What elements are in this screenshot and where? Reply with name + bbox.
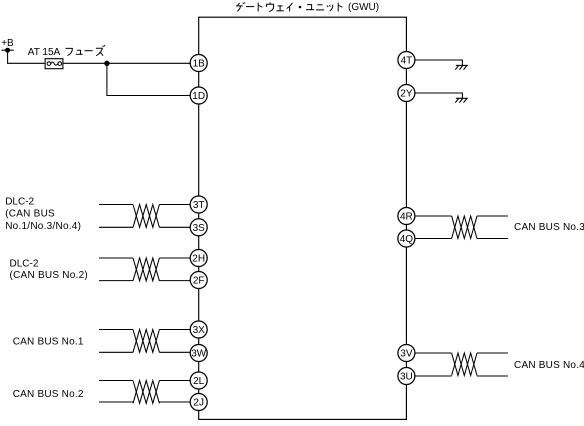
svg-text:3S: 3S <box>193 223 206 234</box>
svg-text:CAN BUS No.4: CAN BUS No.4 <box>514 360 584 371</box>
svg-text:(CAN BUS No.2): (CAN BUS No.2) <box>10 270 89 281</box>
pin 2H <box>190 250 207 267</box>
wire pin 4T to ground <box>415 60 462 65</box>
svg-text:2L: 2L <box>193 376 205 387</box>
svg-text:+B: +B <box>1 38 14 49</box>
svg-text:3X: 3X <box>193 325 206 336</box>
svg-text:CAN BUS No.2: CAN BUS No.2 <box>13 389 84 400</box>
svg-text:DLC-2: DLC-2 <box>5 196 34 207</box>
pin 3X <box>190 321 207 338</box>
wire +B to fuse <box>8 50 45 63</box>
twisted pair CAN BUS No.2 <box>133 381 159 404</box>
pin 4Q <box>398 230 415 247</box>
wire pin 2Y to ground <box>415 93 462 98</box>
svg-text:CAN BUS No.1: CAN BUS No.1 <box>13 337 84 348</box>
pin 1D <box>190 87 207 104</box>
twisted pair CAN BUS No.3 <box>452 216 477 239</box>
pin 3S <box>190 219 207 236</box>
label DLC-2 (CAN BUS No.1/No.3/No.4) <box>5 196 81 232</box>
wire DLC-2 No.2 pair to pin 2H <box>99 257 190 259</box>
svg-text:4T: 4T <box>401 56 413 67</box>
ground G2 (2Y) <box>455 98 468 102</box>
svg-text:CAN BUS No.3: CAN BUS No.3 <box>514 222 584 233</box>
pin 3V <box>398 345 415 362</box>
wire pin 4Q to CAN BUS No.3 <box>415 238 508 240</box>
wire pin 3V to CAN BUS No.4 <box>415 352 508 354</box>
ground G1 (4T) <box>455 65 468 69</box>
pin 3U <box>398 368 415 385</box>
title: gateway unit (GWU) katakana <box>236 2 379 13</box>
wire CAN BUS No.1 to pin 3X <box>99 329 190 331</box>
svg-text:2F: 2F <box>193 276 205 287</box>
pin 4R <box>398 208 415 225</box>
svg-text:(CAN BUS: (CAN BUS <box>5 209 55 220</box>
twisted pair DLC-2 No.2 <box>133 258 159 281</box>
svg-text:3U: 3U <box>400 372 413 383</box>
wire CAN BUS No.2 to pin 2J <box>99 401 190 403</box>
fuse F1 AT 15A <box>45 59 63 69</box>
junction dot <box>104 61 109 66</box>
pin 2F <box>190 272 207 289</box>
label DLC-2 (CAN BUS No.2) <box>10 259 89 282</box>
wire pin 3U to CAN BUS No.4 <box>415 375 508 377</box>
svg-text:4Q: 4Q <box>400 234 414 245</box>
svg-text:3T: 3T <box>193 200 205 211</box>
pin 2J <box>190 394 207 411</box>
svg-text:AT 15A: AT 15A <box>28 47 61 58</box>
svg-text:(GWU): (GWU) <box>348 2 379 13</box>
svg-text:2J: 2J <box>193 398 204 409</box>
pin 2Y <box>398 85 415 102</box>
svg-text:3W: 3W <box>191 349 207 360</box>
twisted pair CAN BUS No.1 <box>133 330 159 353</box>
node +B terminal <box>2 48 14 53</box>
wire DLC-2 pair to pin 3T (CAN-H) <box>99 204 190 206</box>
svg-text:2Y: 2Y <box>400 89 413 100</box>
wire DLC-2 No.2 pair to pin 2F <box>99 280 190 282</box>
svg-text:1D: 1D <box>192 91 205 102</box>
svg-text:1B: 1B <box>193 59 206 70</box>
fuse F1 label katakana fuse <box>66 45 105 56</box>
wire CAN BUS No.1 to pin 3W <box>99 351 190 353</box>
wire DLC-2 pair to pin 3S (CAN-L) <box>99 226 190 228</box>
pin 4T <box>398 52 415 69</box>
svg-text:DLC-2: DLC-2 <box>10 259 39 270</box>
wire pin 4R to CAN BUS No.3 <box>415 215 508 217</box>
pin 3T <box>190 196 207 213</box>
wire CAN BUS No.2 to pin 2L <box>99 380 190 382</box>
svg-text:No.1/No.3/No.4): No.1/No.3/No.4) <box>5 221 81 232</box>
svg-text:3V: 3V <box>400 349 413 360</box>
svg-text:4R: 4R <box>400 212 413 223</box>
pin 2L <box>190 372 207 389</box>
twisted pair DLC-2 No.1/3/4 <box>133 205 159 228</box>
twisted pair CAN BUS No.4 <box>452 353 477 376</box>
wire junction to pin 1D <box>107 63 190 95</box>
pin 1B <box>190 55 207 72</box>
pin 3W <box>190 345 207 362</box>
gateway unit GWU box <box>199 17 407 419</box>
svg-text:2H: 2H <box>192 254 205 265</box>
wire fuse to junction to pin 1B <box>63 62 190 64</box>
